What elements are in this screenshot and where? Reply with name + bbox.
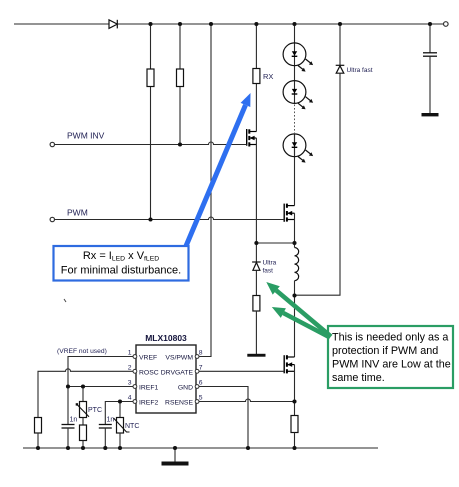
svg-text:3: 3 [128, 380, 132, 387]
svg-text:5: 5 [199, 395, 203, 402]
terminal supply input [444, 22, 449, 27]
svg-text:PWM INV are Low at the: PWM INV are Low at the [332, 359, 451, 371]
transistor Q1 (PWM INV mosfet) [247, 129, 257, 147]
diode D5 ultra fast (clamp) [252, 243, 261, 270]
capacitor C1 [423, 24, 437, 113]
ground (main) [174, 448, 176, 462]
wire LED chain [294, 24, 296, 206]
pin 2 ROSC [133, 369, 137, 373]
svg-text:This is needed only as a: This is needed only as a [332, 332, 448, 344]
LED D2 [283, 81, 313, 110]
wire IREF1 pin3 [68, 386, 133, 388]
junction dots bottom rail [36, 446, 297, 450]
resistor R2 (PWM INV pull-up) [177, 69, 184, 87]
svg-text:PWM INV: PWM INV [67, 131, 105, 141]
resistor clamp [253, 296, 260, 312]
svg-text:1n: 1n [70, 417, 78, 424]
pin 6 GND [195, 385, 199, 389]
svg-text:RX: RX [263, 72, 273, 81]
svg-text:1n: 1n [107, 417, 115, 424]
wire PTC branch [82, 387, 84, 402]
inductor L1 [295, 248, 299, 281]
callout blue box [54, 246, 189, 281]
svg-text:Ultra: Ultra [263, 260, 277, 267]
pin 5 RSENSE [195, 400, 199, 404]
wire GND pin6 [199, 387, 248, 449]
pin 8 VS/PWM [195, 355, 199, 359]
terminal PWM [50, 217, 54, 221]
svg-text:protection if PWM and: protection if PWM and [332, 345, 438, 357]
svg-text:GND: GND [178, 385, 193, 392]
svg-text:PWM: PWM [67, 208, 88, 218]
junction dots mid [66, 142, 297, 403]
wire DRVGATE pin7 to Q3 gate [199, 370, 284, 372]
wire clamp branch [255, 270, 257, 295]
svg-text:DRVGATE: DRVGATE [161, 369, 194, 376]
pin 3 IREF1 [133, 385, 137, 389]
junction dots top rail [148, 22, 432, 26]
wire ROSC resistor to rail [37, 433, 39, 448]
resistor ROSC [35, 418, 42, 434]
IC U1 MLX10803 [136, 345, 196, 413]
green arrow upper [276, 290, 331, 336]
svg-text:7: 7 [199, 364, 203, 371]
svg-text:1: 1 [128, 350, 132, 357]
resistor PTC series [80, 425, 87, 441]
wire pull-up branch R1 [150, 24, 152, 220]
svg-text:IREF2: IREF2 [139, 400, 158, 407]
svg-text:ROSC: ROSC [139, 369, 159, 376]
diode series on top rail [109, 20, 117, 29]
transistor Q3 (main switch) [284, 355, 294, 373]
svg-text:same time.: same time. [332, 372, 385, 384]
wire PWM INV with hop [55, 142, 247, 145]
wire RX branch [255, 24, 257, 132]
ground (clamp branch) [247, 354, 265, 357]
svg-text:IREF1: IREF1 [139, 385, 158, 392]
wire node B down to Q3 [294, 296, 296, 358]
wire IREF2 pin4 [105, 402, 133, 425]
blue arrow [186, 105, 246, 246]
wire bottom ground rail [23, 447, 378, 449]
pin 7 DRVGATE [195, 369, 199, 373]
green arrow lower [283, 313, 330, 338]
stray tick mark [64, 299, 66, 302]
svg-text:2: 2 [128, 364, 132, 371]
capacitor C3 1n [99, 425, 112, 429]
wire coil leads [294, 243, 296, 248]
wire sense to rail [294, 433, 296, 449]
pin 4 IREF2 [133, 400, 137, 404]
wire dotted LED continuation [294, 105, 296, 134]
wire Q2 source down [294, 213, 296, 243]
wire top supply rail [14, 23, 443, 25]
wire VREF pin1 [68, 357, 133, 387]
svg-text:VREF: VREF [139, 355, 157, 362]
wire Q3 source [294, 365, 296, 416]
thermistor NTC [117, 418, 124, 434]
wire pull-up branch R2 [179, 24, 181, 145]
LED D3 [283, 134, 313, 163]
svg-text:RSENSE: RSENSE [165, 400, 193, 407]
capacitor C2 1n [62, 425, 75, 429]
resistor R1 (PWM pull-up) [147, 69, 154, 87]
svg-text:8: 8 [199, 350, 203, 357]
LED D1 [283, 43, 313, 72]
resistor RX [253, 69, 260, 84]
terminal PWM INV [50, 142, 54, 146]
svg-text:For minimal disturbance.: For minimal disturbance. [61, 265, 181, 277]
svg-text:PTC: PTC [88, 407, 102, 414]
wire NTC branch [119, 402, 121, 418]
wire ROSC pin2 with hop [38, 369, 133, 418]
resistor sense [291, 416, 298, 433]
svg-text:(VREF not used): (VREF not used) [57, 348, 107, 355]
pin 1 VREF [133, 355, 137, 359]
wire PWM with hop [55, 217, 285, 220]
transistor Q2 (PWM mosfet) [284, 204, 294, 222]
callout green box [328, 326, 453, 388]
svg-text:6: 6 [199, 380, 203, 387]
svg-text:NTC: NTC [125, 423, 139, 430]
wire RSENSE pin5 with hop [199, 399, 295, 402]
wire D4 cathode riser to node B [295, 73, 341, 295]
wire C2 branch [67, 387, 69, 425]
svg-text:Ultra fast: Ultra fast [347, 67, 373, 74]
svg-text:fast: fast [263, 268, 274, 275]
ground (C1) [422, 113, 439, 116]
svg-text:VS/PWM: VS/PWM [165, 355, 193, 362]
wire link node A [256, 242, 294, 244]
wire VS/PWM riser [199, 24, 211, 357]
svg-text:4: 4 [128, 395, 132, 402]
wire clamp to ground [255, 311, 257, 354]
wire PTC to series resistor [82, 418, 84, 426]
svg-text:MLX10803: MLX10803 [145, 333, 187, 343]
diode D4 ultra fast (top, freewheel) [336, 24, 345, 73]
wire Q1 source down [255, 138, 257, 243]
thermistor PTC [80, 402, 87, 418]
